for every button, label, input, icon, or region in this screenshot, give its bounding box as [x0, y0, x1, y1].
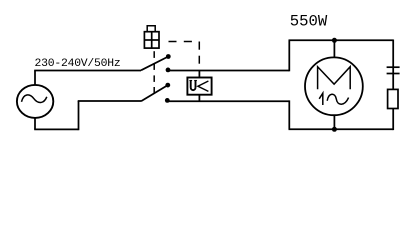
wire source bottom stub [34, 117, 36, 129]
dashed link vertical down to U-box [198, 42, 200, 64]
node junction dot top of motor branch [332, 38, 337, 43]
wire motor top stub [333, 40, 335, 57]
wire source top stub [34, 71, 36, 86]
wire bottom horizontal under source [34, 128, 78, 130]
switch S1 blade tip dot [166, 54, 171, 59]
switch S2 blade tip dot [165, 83, 170, 88]
switch S2 blade (lower pole, open) [141, 85, 168, 101]
switch S2 fixed contact dot [165, 98, 170, 103]
wire capacitor branch upper [392, 40, 394, 90]
switch S1 fixed contact dot [166, 68, 171, 73]
wire top from source to switch [34, 70, 141, 72]
svg-text:550W: 550W [290, 12, 328, 30]
motor 1~ marking: sine [327, 94, 348, 104]
resistor R1 body [388, 89, 398, 108]
motor 1~ marking: digit 1 [319, 93, 323, 105]
motor M1 circle [305, 57, 363, 115]
dashed mechanical linkage between switch poles [153, 51, 155, 93]
wire bottom riser [78, 101, 80, 130]
switch S1 blade (upper pole, open) [141, 57, 168, 71]
U< label letter U [191, 81, 196, 91]
top rail wire [289, 39, 394, 41]
capacitor C1 plate 2 [387, 73, 400, 75]
wire motor bottom stub [333, 115, 335, 129]
wire top riser to top rail [288, 40, 290, 71]
capacitor C1 plate 1 [387, 66, 400, 68]
undervoltage release U< box stub top [198, 71, 200, 77]
wire bottom to switch [78, 100, 141, 102]
bottom rail wire [289, 128, 394, 130]
U< less-than symbol [198, 81, 209, 91]
wire resistor to bottom rail [392, 109, 394, 131]
undervoltage release U< box stub bottom [198, 95, 200, 102]
plug top tab [147, 26, 155, 32]
node junction dot bottom of motor branch [332, 127, 337, 132]
undervoltage release U< box [187, 78, 211, 95]
wire bottom from switch to riser [167, 100, 289, 102]
plug / thermal device square with cross [144, 32, 159, 48]
wire top from switch to riser [168, 70, 289, 72]
dashed link from plug to U-box (horizontal) [169, 41, 192, 43]
motor letter M [318, 67, 351, 90]
wire bottom riser to bottom rail [288, 100, 290, 129]
svg-text:230-240V/50Hz: 230-240V/50Hz [35, 58, 121, 70]
AC source sine wave [22, 95, 47, 103]
AC source G1 circle [17, 85, 53, 118]
